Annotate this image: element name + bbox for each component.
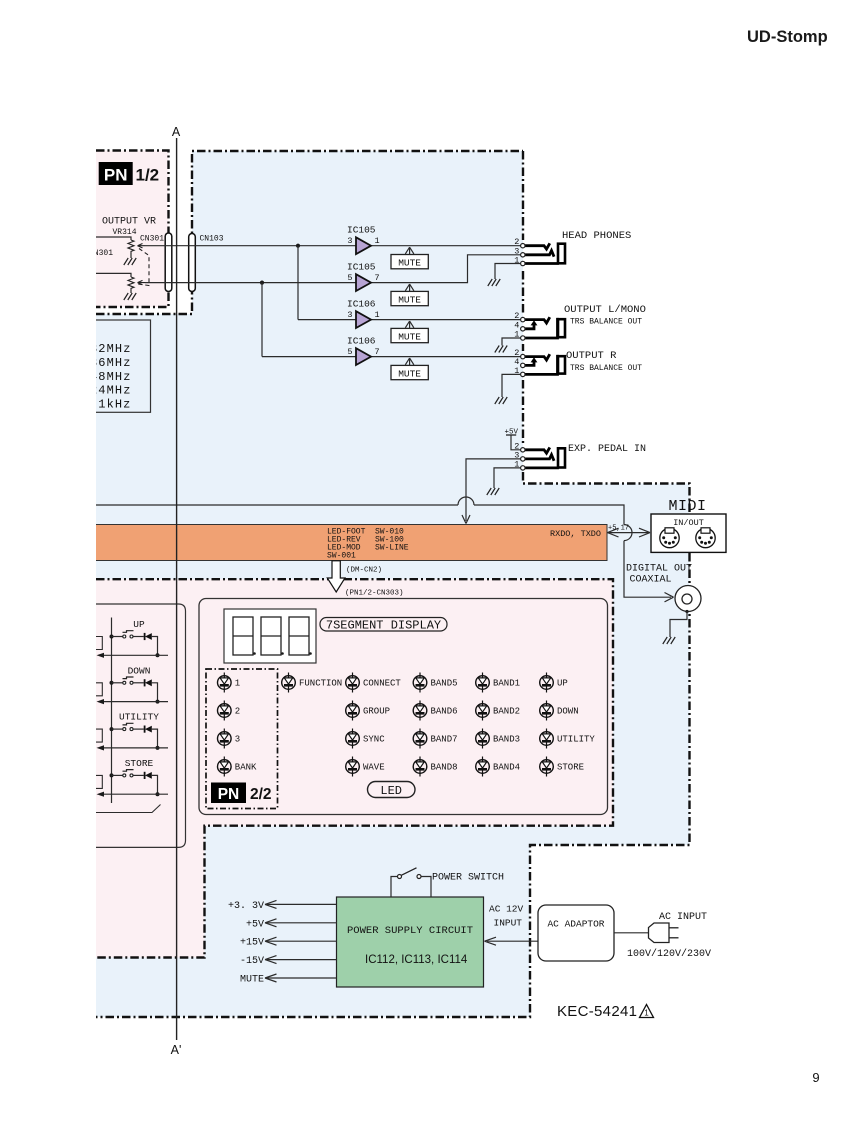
svg-text:UP: UP: [557, 679, 568, 689]
svg-text:MUTE: MUTE: [240, 975, 264, 986]
LED CONNECT: [346, 673, 402, 693]
svg-text:A': A': [171, 1043, 182, 1057]
LED BAND8: [413, 757, 457, 777]
svg-text:CN103: CN103: [200, 235, 224, 244]
LED 3: [218, 729, 241, 749]
stub wires UP: [96, 637, 102, 650]
ground VR314a: [124, 258, 136, 265]
power rail +3.3V: [228, 900, 337, 912]
power supply circuit block: [337, 897, 484, 987]
svg-text:FUNCTION: FUNCTION: [299, 679, 342, 689]
svg-text:RXDO, TXDO: RXDO, TXDO: [550, 529, 601, 539]
wire coaxial to ground: [670, 612, 687, 638]
svg-text:+5,17: +5,17: [608, 525, 629, 533]
output L/MONO pin 1: [521, 336, 525, 340]
svg-text:AC 12V: AC 12V: [489, 904, 524, 915]
stub wires DOWN: [96, 683, 102, 696]
op-amp IC106 pins 5/7: [347, 336, 380, 365]
LED UTILITY: [540, 729, 596, 749]
output R pin 4: [521, 363, 525, 367]
svg-text:UP: UP: [133, 619, 145, 630]
svg-text:MUTE: MUTE: [398, 368, 421, 379]
svg-text:HEAD PHONES: HEAD PHONES: [562, 230, 631, 242]
headphones jack: [525, 244, 565, 264]
svg-text:IC105: IC105: [347, 262, 376, 273]
svg-text:MIDI: MIDI: [668, 498, 706, 515]
node UTILITY rail: [156, 746, 160, 750]
wire digital-out run: [96, 504, 458, 506]
wire VR314b to ground: [130, 291, 132, 294]
wire audio R to IC105b: [145, 282, 356, 284]
7SEGMENT DISPLAY label: [320, 618, 447, 633]
rail wire DOWN: [100, 701, 168, 703]
LED FUNCTION: [282, 673, 343, 693]
svg-text:BAND6: BAND6: [431, 707, 458, 717]
exp pedal jack: [525, 448, 565, 468]
svg-text:100V/120V/230V: 100V/120V/230V: [627, 948, 711, 960]
ground coaxial: [663, 637, 675, 644]
mute control box: [391, 284, 428, 306]
diode DOWN: [145, 679, 152, 686]
svg-text:COAXIAL: COAXIAL: [630, 575, 672, 586]
wire angled stub at switch board bottom: [62, 805, 161, 813]
svg-text:3: 3: [347, 236, 352, 246]
arrow into bus bar: [462, 515, 470, 524]
board link arrow DM-CN2 to PN1/2-CN303: [327, 561, 345, 592]
wire junction down to IC106a: [297, 246, 299, 320]
svg-text:INPUT: INPUT: [494, 918, 523, 929]
svg-text:WAVE: WAVE: [363, 763, 385, 773]
white page margin cover: [0, 0, 96, 1122]
svg-text:BAND7: BAND7: [431, 735, 458, 745]
svg-text:7: 7: [375, 273, 380, 283]
LED WAVE: [346, 757, 385, 777]
svg-text:STORE: STORE: [125, 758, 154, 769]
display board outline box: [199, 599, 608, 815]
svg-text:DIGITAL OUT: DIGITAL OUT: [626, 564, 692, 575]
wire +5V to exp pedal pin 2: [511, 435, 521, 450]
op-amp IC105 pins 3/1: [347, 225, 380, 254]
LED 1: [218, 673, 241, 693]
LED BAND2: [476, 701, 520, 721]
svg-text:(DM-CN2): (DM-CN2): [346, 567, 382, 575]
mute control box: [391, 358, 428, 380]
svg-text:KEC-54241: KEC-54241: [557, 1003, 637, 1020]
svg-text:TRS BALANCE OUT: TRS BALANCE OUT: [570, 318, 642, 327]
potentiometer VR314b: [128, 277, 145, 291]
svg-text:32MHz: 32MHz: [90, 342, 132, 356]
op-amp IC106 pins 3/1: [347, 299, 380, 328]
wire headphones pin1 to ground: [495, 264, 521, 280]
7segment digit 1: [233, 617, 256, 655]
pink PN1/2 board fill: [96, 151, 169, 308]
LED GROUP: [346, 701, 390, 721]
svg-text:A: A: [172, 125, 181, 139]
svg-text:+15V: +15V: [240, 938, 264, 949]
svg-text:CONNECT: CONNECT: [363, 679, 401, 689]
LED BAND6: [413, 701, 457, 721]
output L/MONO pin 2: [521, 317, 525, 321]
output R pin 2: [521, 354, 525, 358]
svg-text:7: 7: [375, 347, 380, 357]
connector CN103: [189, 234, 196, 292]
power switch wires: [391, 877, 431, 898]
PN 2/2 board title: [211, 783, 272, 804]
wire to VR314a: [96, 237, 131, 240]
node DOWN rail: [156, 700, 160, 704]
svg-text:3: 3: [347, 310, 352, 320]
node junction wire1: [296, 244, 300, 248]
switch UP: [110, 619, 145, 639]
headphones pin 2: [521, 244, 525, 248]
AC plug: [649, 923, 679, 943]
svg-text:PN: PN: [218, 786, 240, 803]
LED DOWN: [540, 701, 579, 721]
switch STORE: [110, 758, 154, 778]
svg-text:IN/OUT: IN/OUT: [673, 518, 704, 528]
midi bidirectional arrow: [608, 528, 651, 537]
wire output R pin1 to ground: [502, 374, 521, 397]
svg-text:MUTE: MUTE: [398, 258, 421, 269]
svg-text:MUTE: MUTE: [398, 294, 421, 305]
AC adaptor box: [538, 905, 614, 961]
svg-text:36MHz: 36MHz: [90, 356, 132, 370]
svg-text:1kHz: 1kHz: [98, 398, 131, 412]
headphones pin 1: [521, 261, 525, 265]
ground exp pedal: [487, 488, 499, 495]
svg-text:(PN1/2-CN303): (PN1/2-CN303): [345, 590, 404, 598]
7segment digit 3: [289, 617, 312, 655]
LED STORE: [540, 757, 584, 777]
svg-text:1: 1: [644, 1009, 649, 1018]
LED BANK: [218, 757, 258, 777]
switch board outline box: [62, 604, 186, 847]
svg-text:DOWN: DOWN: [128, 665, 151, 676]
svg-text:BANK: BANK: [235, 763, 257, 773]
LED 2: [218, 701, 241, 721]
svg-text:LED: LED: [380, 784, 402, 798]
wire exp pedal pin1 to ground: [494, 468, 521, 488]
output R jack: [525, 355, 565, 374]
AC 12V INPUT label: [489, 904, 524, 929]
bus bar signal labels: [327, 528, 409, 561]
white page margin cover 2: [0, 0, 96, 1122]
dashed gang link VR314: [138, 249, 149, 286]
svg-text:CN301: CN301: [140, 235, 164, 244]
arrow into coaxial connector: [665, 593, 674, 602]
svg-text:POWER SWITCH: POWER SWITCH: [432, 873, 504, 884]
svg-text:AC ADAPTOR: AC ADAPTOR: [547, 919, 604, 930]
diode STORE: [145, 772, 152, 779]
svg-text:OUTPUT VR: OUTPUT VR: [102, 217, 156, 228]
svg-text:3: 3: [235, 735, 240, 745]
blue board region fill: [96, 151, 690, 1017]
svg-text:UTILITY: UTILITY: [557, 735, 595, 745]
svg-text:UD-Stomp: UD-Stomp: [747, 28, 828, 46]
exp pedal pin 2: [521, 448, 525, 452]
output L/MONO jack: [525, 318, 565, 338]
svg-text:IC112, IC113, IC114: IC112, IC113, IC114: [365, 954, 468, 966]
wire exp pedal pin3 down to bus bar: [466, 459, 521, 521]
node UP rail: [156, 653, 160, 657]
svg-text:PN: PN: [104, 166, 128, 185]
svg-text:2: 2: [235, 707, 240, 717]
MIDI DIN connector IN: [660, 528, 679, 548]
wire audio L to IC105a: [145, 245, 356, 247]
svg-text:TRS BALANCE OUT: TRS BALANCE OUT: [570, 364, 642, 373]
svg-text:IC106: IC106: [347, 299, 376, 310]
switch UTILITY: [110, 712, 160, 732]
wire UP to rail: [152, 637, 158, 656]
svg-text:BAND5: BAND5: [431, 679, 458, 689]
wire to VR314b: [96, 273, 131, 277]
svg-text:AC INPUT: AC INPUT: [659, 912, 707, 923]
stub wires STORE: [96, 775, 102, 788]
node coaxial shield: [685, 610, 688, 613]
svg-text:7SEGMENT DISPLAY: 7SEGMENT DISPLAY: [326, 619, 441, 633]
svg-text:2/2: 2/2: [250, 786, 272, 803]
pink control board dash-dot border: [96, 579, 613, 957]
svg-text:9: 9: [812, 1070, 819, 1085]
svg-text:+5V: +5V: [246, 919, 264, 930]
pink PN1/2 board dash-dot border: [96, 151, 169, 308]
stub wires UTILITY: [96, 729, 102, 742]
ground output L: [495, 346, 507, 353]
connector CN301: [165, 233, 172, 292]
power rail +5V: [246, 919, 337, 931]
+5V supply symbol: [505, 429, 519, 437]
switch bus wire: [111, 618, 113, 804]
power rail MUTE: [240, 974, 337, 986]
LED BAND1: [476, 673, 520, 693]
LED group 1-BANK dash-dot box: [206, 669, 278, 809]
power rail -15V: [240, 956, 337, 968]
svg-text:SW-LINE: SW-LINE: [375, 544, 409, 553]
svg-text:1/2: 1/2: [136, 166, 160, 185]
coaxial RCA connector: [675, 586, 701, 612]
DIGITAL OUT COAXIAL label: [626, 564, 692, 586]
wire output L pin1 to ground: [502, 338, 521, 346]
svg-text:STORE: STORE: [557, 763, 584, 773]
wire STORE to rail: [152, 775, 158, 794]
orange data bus bar: [96, 525, 607, 561]
output L/MONO pin 4: [521, 327, 525, 331]
wire UTILITY to rail: [152, 729, 158, 748]
node STORE rail: [156, 792, 160, 796]
LED SYNC: [346, 729, 386, 749]
output R pin 1: [521, 372, 525, 376]
svg-text:SYNC: SYNC: [363, 735, 385, 745]
wire IC105b output to headphones pin 3: [371, 255, 521, 283]
KEC-54241 drawing number: [557, 1003, 654, 1020]
svg-text:MUTE: MUTE: [398, 331, 421, 342]
op-amp IC105 pins 5/7: [347, 262, 380, 291]
svg-text:POWER SUPPLY CIRCUIT: POWER SUPPLY CIRCUIT: [347, 925, 473, 937]
arrow into power supply: [485, 937, 497, 945]
svg-text:OUTPUT L/MONO: OUTPUT L/MONO: [564, 304, 646, 316]
rail wire UP: [100, 654, 168, 656]
exp pedal pin 3: [521, 457, 525, 461]
wire down to coaxial connector: [624, 541, 671, 598]
LED BAND7: [413, 729, 457, 749]
exp pedal pin 1: [521, 466, 525, 470]
svg-text:EXP. PEDAL IN: EXP. PEDAL IN: [568, 444, 646, 455]
wire AC adaptor to plug: [614, 932, 649, 934]
wire AC adaptor to power supply: [487, 940, 538, 942]
svg-text:BAND1: BAND1: [493, 679, 520, 689]
svg-text:UTILITY: UTILITY: [119, 712, 159, 723]
svg-text:1: 1: [375, 236, 380, 246]
svg-text:5: 5: [347, 273, 352, 283]
frequency labels: [90, 342, 132, 412]
diode UTILITY: [145, 726, 152, 733]
blue board dash-dot border: [96, 151, 523, 314]
wire IC106a output to output L pin 2: [298, 319, 356, 321]
svg-text:IC105: IC105: [347, 225, 376, 236]
LED BAND5: [413, 673, 457, 693]
wire hop over midi arrow: [624, 525, 632, 541]
power rail +15V: [240, 937, 337, 949]
section line A-A': [176, 138, 178, 1040]
mute control box: [391, 321, 428, 343]
svg-text:SW-001: SW-001: [327, 552, 356, 561]
svg-text:BAND2: BAND2: [493, 707, 520, 717]
svg-text:1: 1: [375, 310, 380, 320]
LED BAND3: [476, 729, 520, 749]
MIDI DIN connector OUT: [696, 528, 715, 548]
wire IC105a output to headphones pin 2: [371, 245, 521, 247]
7segment digits box: [224, 609, 316, 663]
svg-text:VR314: VR314: [113, 228, 137, 237]
frequency list box: [62, 320, 151, 412]
svg-text:OUTPUT R: OUTPUT R: [566, 350, 617, 362]
ground output R: [495, 397, 507, 404]
svg-text:24MHz: 24MHz: [90, 384, 132, 398]
svg-text:48MHz: 48MHz: [90, 370, 132, 384]
pink control board fill: [96, 579, 613, 957]
svg-text:1: 1: [235, 679, 240, 689]
LED UP: [540, 673, 568, 693]
svg-text:GROUP: GROUP: [363, 707, 390, 717]
wire VR314a to ground: [130, 254, 132, 259]
node junction wire2: [260, 281, 264, 285]
mute control box: [391, 247, 428, 269]
svg-text:IC106: IC106: [347, 336, 376, 347]
svg-text:5: 5: [347, 347, 352, 357]
svg-text:+3. 3V: +3. 3V: [228, 901, 264, 912]
svg-text:-15V: -15V: [240, 956, 264, 967]
MIDI IN/OUT box: [651, 514, 726, 552]
svg-text:BAND4: BAND4: [493, 763, 520, 773]
LED BAND4: [476, 757, 520, 777]
svg-text:BAND8: BAND8: [431, 763, 458, 773]
wire hop over exp wire: [458, 497, 474, 505]
wire IC106b output to output R pin 2: [262, 356, 356, 358]
headphones pin 3: [521, 253, 525, 257]
wire DOWN to rail: [152, 683, 158, 702]
wire junction down to IC106b: [261, 283, 263, 357]
ground headphones: [488, 279, 500, 286]
ground VR314b: [124, 293, 136, 300]
diode UP: [145, 633, 152, 640]
rail wire STORE: [100, 793, 168, 795]
switch DOWN: [110, 665, 151, 685]
svg-text:BAND3: BAND3: [493, 735, 520, 745]
potentiometer VR314a: [128, 240, 145, 254]
LED label badge: [368, 782, 416, 799]
PN 1/2 board title: [99, 162, 159, 185]
svg-text:DOWN: DOWN: [557, 707, 579, 717]
power switch: [398, 868, 422, 879]
7segment digit 2: [261, 617, 284, 655]
rail wire UTILITY: [100, 747, 168, 749]
